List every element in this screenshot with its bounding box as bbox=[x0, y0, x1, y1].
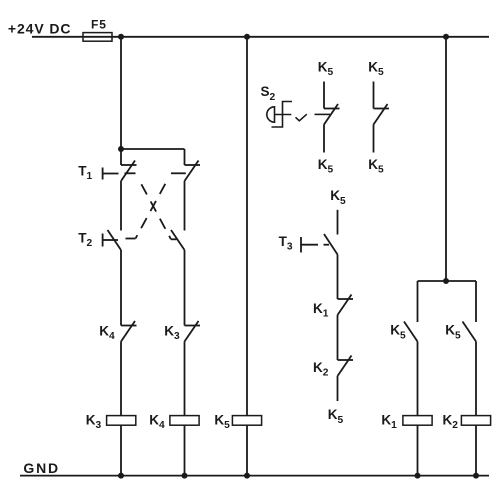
fuse F5 bbox=[83, 33, 112, 42]
svg-text:K5: K5 bbox=[328, 407, 344, 426]
wire: right sub-branch A upper stub bbox=[417, 281, 419, 322]
wire: branch2 to coil bbox=[184, 342, 186, 416]
wire: branch1 drop from rail bbox=[120, 37, 122, 149]
svg-text:K1: K1 bbox=[381, 412, 397, 431]
svg-text:K4: K4 bbox=[99, 323, 115, 342]
svg-text:K3: K3 bbox=[164, 323, 180, 342]
svg-text:K4: K4 bbox=[149, 412, 165, 431]
wire: right branch drop bbox=[445, 37, 447, 281]
S2 detent check mark bbox=[296, 114, 307, 121]
wire: right split connector bbox=[418, 280, 477, 282]
svg-text:T2: T2 bbox=[78, 230, 92, 249]
wire: branch2 between contacts bbox=[184, 250, 186, 326]
contact K2 (NC) bbox=[338, 356, 354, 377]
wire: branch1 to GND bbox=[120, 425, 122, 475]
node: branch1/branch2 split bbox=[118, 146, 124, 152]
contact K5 (NO) sub-branch A bbox=[404, 322, 418, 342]
S2 actuator link to K5 contact bbox=[315, 113, 331, 115]
wire: branch1 between T2 and K4 contact bbox=[120, 250, 122, 326]
node: sub-branch A GND junction bbox=[415, 473, 421, 479]
node: rail junction branch 3 bbox=[244, 34, 250, 40]
svg-text:K5: K5 bbox=[390, 323, 406, 342]
svg-text:K5: K5 bbox=[318, 157, 334, 176]
contact K3 (NC) on branch2 bbox=[185, 321, 201, 342]
wire: monitoring chain K1 to K2 bbox=[337, 315, 339, 360]
wire: branch1 upper stub bbox=[120, 149, 122, 165]
wire: sub-branch A to coil bbox=[417, 342, 419, 416]
svg-text:S2: S2 bbox=[261, 84, 276, 103]
svg-text:K5: K5 bbox=[368, 157, 384, 176]
mechanical interlock dashed link T1'->T2 bbox=[126, 173, 186, 238]
wire: sub-branch B to coil bbox=[475, 342, 477, 416]
wire: branch3 to GND bbox=[246, 425, 248, 475]
contact K1 (NC) bbox=[338, 295, 354, 316]
contact T1 (NC) on branch1 bbox=[121, 161, 137, 182]
contact T2 (NO) on branch1 bbox=[108, 230, 122, 250]
svg-text:K2: K2 bbox=[443, 412, 459, 431]
svg-text:K3: K3 bbox=[86, 412, 102, 431]
svg-text:T3: T3 bbox=[279, 234, 293, 253]
actuator T2 bbox=[103, 234, 118, 247]
wire: branch2 upper stub bbox=[184, 149, 186, 165]
coil K4 bbox=[170, 416, 199, 426]
contact T3 (NO) bbox=[324, 234, 338, 255]
contact K5 feedback 1 (NC) bbox=[324, 104, 340, 125]
mechanical interlock dashed link T1->T2' bbox=[125, 173, 177, 239]
svg-text:K1: K1 bbox=[313, 301, 329, 320]
svg-text:K5: K5 bbox=[330, 188, 346, 207]
actuator T3 bbox=[301, 237, 329, 253]
svg-text:GND: GND bbox=[23, 460, 60, 476]
node: branch3 GND junction bbox=[244, 473, 250, 479]
node: sub-branch B GND junction bbox=[473, 473, 479, 479]
wire: branch1 between K4 contact and K3 coil bbox=[120, 342, 122, 416]
wire: monitoring chain upper stub bbox=[337, 210, 339, 235]
contact K4-interlock (NC) on branch2 bbox=[185, 161, 201, 182]
svg-text:K5: K5 bbox=[368, 60, 384, 79]
wire: feedback contact 2 upper stub bbox=[373, 82, 375, 109]
node: rail junction branch 1 bbox=[118, 34, 124, 40]
wire: sub-branch A to GND bbox=[417, 425, 419, 475]
actuator T1 bbox=[103, 168, 119, 180]
+24V DC supply rail bbox=[32, 36, 489, 38]
svg-text:K5: K5 bbox=[214, 412, 230, 431]
wire: branch3 full drop bbox=[246, 37, 248, 416]
contact K5 feedback 2 (NC) bbox=[374, 104, 390, 125]
contact K5 (NO) sub-branch B bbox=[463, 322, 477, 342]
svg-text:+24V DC: +24V DC bbox=[8, 21, 72, 37]
pushbutton S2 head bbox=[267, 107, 275, 122]
coil K3 bbox=[107, 416, 136, 426]
coil K1 bbox=[403, 416, 432, 426]
node: branch1 GND junction bbox=[118, 473, 124, 479]
wire: feedback contact 2 lower stub bbox=[373, 125, 375, 153]
node: rail junction right branch bbox=[443, 34, 449, 40]
GND rail bbox=[20, 475, 489, 477]
wire: sub-branch B to GND bbox=[475, 425, 477, 475]
node: right branch split bbox=[443, 278, 449, 284]
svg-text:F5: F5 bbox=[91, 18, 107, 32]
wire: right sub-branch B upper stub bbox=[475, 281, 477, 322]
svg-text:T1: T1 bbox=[78, 163, 92, 182]
wire: branch2 to GND bbox=[184, 425, 186, 475]
wire: feedback contact 1 upper stub bbox=[323, 82, 325, 109]
wire: monitoring chain lower stub bbox=[337, 376, 339, 401]
wire: split connector to branch2 bbox=[121, 148, 185, 150]
svg-text:K2: K2 bbox=[313, 360, 329, 379]
wire: branch1 between T1 and T2 bbox=[120, 181, 122, 231]
svg-text:K5: K5 bbox=[318, 60, 334, 79]
coil K5 bbox=[232, 416, 261, 426]
wire: branch2 middle bbox=[184, 181, 186, 231]
svg-text:K5: K5 bbox=[445, 323, 461, 342]
pushbutton S2 plunger bracket bbox=[272, 102, 293, 128]
contact T2' (NO) on branch2 bbox=[171, 230, 185, 250]
contact K4 (NC) on branch1 bbox=[121, 321, 137, 342]
node: branch2 GND junction bbox=[182, 473, 188, 479]
S2 actuator rod bbox=[275, 114, 292, 116]
wire: monitoring chain T3 to K1 bbox=[337, 255, 339, 300]
coil K2 bbox=[461, 416, 490, 426]
wire: feedback contact 1 lower stub bbox=[323, 125, 325, 153]
